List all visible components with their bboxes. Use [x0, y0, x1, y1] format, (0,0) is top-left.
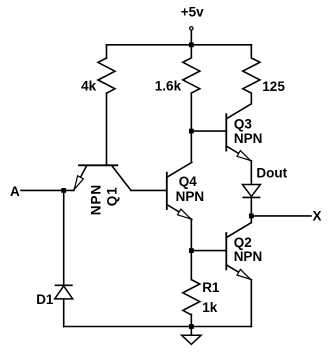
svg-text:Q3: Q3: [234, 117, 253, 132]
svg-text:1k: 1k: [202, 300, 218, 315]
svg-text:NPN: NPN: [234, 131, 263, 146]
svg-text:+5v: +5v: [181, 4, 204, 19]
svg-text:Q1: Q1: [105, 186, 120, 206]
svg-text:Dout: Dout: [256, 166, 287, 181]
svg-text:Q4: Q4: [179, 174, 198, 189]
svg-text:D1: D1: [36, 292, 54, 307]
svg-text:4k: 4k: [81, 79, 97, 94]
svg-text:NPN: NPN: [176, 189, 205, 204]
svg-text:NPN: NPN: [234, 249, 263, 264]
svg-text:125: 125: [262, 79, 285, 94]
svg-text:1.6k: 1.6k: [155, 79, 182, 94]
svg-text:R1: R1: [202, 280, 220, 295]
svg-text:A: A: [10, 184, 20, 199]
svg-text:X: X: [313, 208, 322, 223]
svg-text:NPN: NPN: [88, 184, 103, 215]
